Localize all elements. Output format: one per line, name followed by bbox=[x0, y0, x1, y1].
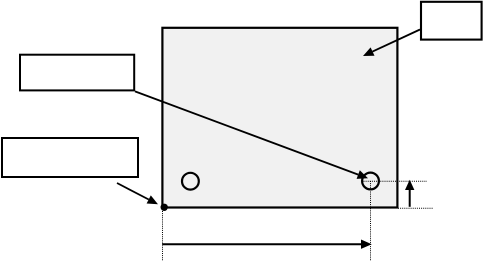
leader arrow from bottom-left box to datum dot bbox=[117, 183, 158, 204]
callout box top-right bbox=[421, 2, 482, 40]
extension line vertical from right hole center bbox=[370, 181, 372, 261]
callout box middle-left bbox=[20, 55, 134, 91]
extension line horizontal from right hole center bbox=[364, 180, 428, 182]
hole right bbox=[362, 173, 379, 190]
dimension arrow vertical (hole height from bottom edge) bbox=[405, 180, 414, 207]
hole left bbox=[182, 173, 199, 190]
leader arrow from top-right box to plate surface bbox=[363, 30, 420, 57]
extension line vertical from datum corner bbox=[162, 211, 164, 261]
datum dot at plate bottom-left corner bbox=[161, 204, 168, 211]
extension line horizontal at plate bottom edge right bbox=[398, 207, 433, 209]
plate body (gray rectangle) bbox=[162, 28, 397, 208]
leader arrow from middle-left box to right hole bbox=[135, 91, 368, 178]
callout box bottom-left bbox=[2, 138, 138, 177]
dimension arrow horizontal (hole distance from datum) bbox=[162, 240, 371, 249]
